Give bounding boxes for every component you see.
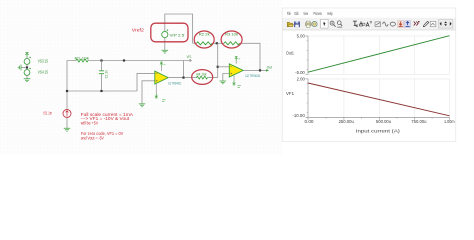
svg-text:750.00u: 750.00u <box>411 119 426 124</box>
toolbar icon: print <box>305 21 311 27</box>
wire: feedback row <box>193 43 260 70</box>
toolbar icon: text box <box>430 21 436 26</box>
voltage source VS3 <box>24 57 31 67</box>
wire: bottom rail <box>67 90 137 92</box>
y labels panel 1 <box>295 34 305 75</box>
wire: U1 output row <box>168 77 192 79</box>
svg-text:VS4 15: VS4 15 <box>38 70 49 75</box>
svg-text:R1 10k: R1 10k <box>75 55 90 60</box>
plot window frame <box>282 8 456 141</box>
node: cap top <box>100 59 102 61</box>
schematic background <box>0 0 474 155</box>
U1 V+ power pin <box>160 62 165 71</box>
annotation ellipse around R4 <box>192 70 213 85</box>
node: U2 inverting tap <box>217 66 219 68</box>
svg-text:Help: Help <box>327 11 333 16</box>
annotation ellipse around R3 <box>221 31 242 48</box>
y axis panel 2 <box>306 79 309 118</box>
toolbar icon: pen <box>423 21 428 26</box>
trace VF1 dark red <box>308 83 450 116</box>
svg-text:Out: Out <box>267 64 273 69</box>
toolbar icon: zoom <box>330 21 335 27</box>
toolbar icon: cursor pressed <box>321 19 328 28</box>
wire: Vref to ground <box>164 38 166 50</box>
svg-text:VS3 15: VS3 15 <box>38 59 49 64</box>
toolbar nav cluster <box>438 20 453 28</box>
svg-text:VF1: VF1 <box>286 91 295 96</box>
annotation text block <box>81 112 134 141</box>
svg-text:VrP 2.5: VrP 2.5 <box>170 32 185 37</box>
wire: U2 non-inverting to ground <box>223 74 230 81</box>
svg-text:R3 10k: R3 10k <box>225 32 238 36</box>
annotation box Vref2 <box>151 23 188 42</box>
wire: left vertical rail to IS1 <box>66 61 68 110</box>
svg-text:500.00u: 500.00u <box>376 119 391 124</box>
toolbar band <box>283 18 456 30</box>
resistor R3 <box>224 42 239 45</box>
svg-text:0.00: 0.00 <box>305 119 315 124</box>
toolbar icon: export red <box>398 21 404 28</box>
gridlines panel 2 <box>308 79 450 118</box>
svg-text:U2 TRS4011: U2 TRS4011 <box>246 74 261 78</box>
toolbar icon: cursor b <box>359 21 365 27</box>
toolbar icon: cursor a <box>353 21 358 27</box>
output pin arrow <box>266 69 269 71</box>
node: cap bottom <box>100 90 102 92</box>
op-amp U2 <box>229 64 243 77</box>
menu bar <box>287 11 333 16</box>
svg-text:R2 2k: R2 2k <box>199 32 210 36</box>
ground below IS1 <box>64 128 71 131</box>
svg-text:Input current (A): Input current (A) <box>356 128 401 133</box>
svg-text:-5.00: -5.00 <box>295 70 305 75</box>
svg-text:5.00: 5.00 <box>297 34 306 39</box>
svg-text:250.00u: 250.00u <box>339 119 354 124</box>
toolbar icon: sine <box>383 22 389 26</box>
y labels panel 2 <box>292 77 305 119</box>
voltage source VS4 <box>24 68 31 79</box>
svg-text:C1 2n: C1 2n <box>103 70 108 78</box>
resistor R2 <box>197 42 212 45</box>
svg-text:1.00m: 1.00m <box>444 119 455 124</box>
x axis <box>308 117 450 119</box>
node: feedback tap on output <box>259 69 261 71</box>
svg-text:Process: Process <box>314 11 322 16</box>
ground at U2 non-inverting input <box>220 81 227 84</box>
svg-text:2.00: 2.00 <box>297 77 306 82</box>
toolbar icon: save floppy <box>294 22 300 28</box>
power arrow above VS3 <box>26 53 29 57</box>
resistor R1 <box>76 59 88 62</box>
toolbar icon: import blue <box>405 21 411 28</box>
voltage pin VF1 <box>184 60 191 62</box>
node: summing junction top <box>216 42 218 44</box>
U1 V- power pin <box>155 83 166 101</box>
toolbar icon: autoscale <box>375 22 381 27</box>
wire: feedback drop to output <box>183 61 185 78</box>
ground at U1 non-inverting input <box>139 104 146 107</box>
svg-text:Out1: Out1 <box>286 51 295 56</box>
svg-text:IS1 1m: IS1 1m <box>44 111 53 116</box>
U2 V- power pin with ground <box>233 75 241 87</box>
node: rail junction <box>123 59 125 61</box>
resistor R4 <box>192 77 218 79</box>
ground below VS4 <box>24 79 31 82</box>
wire: U1 non-inverting input to ground <box>142 81 155 104</box>
capacitor C1 <box>99 61 104 92</box>
toolbar icon: legend <box>366 22 372 27</box>
svg-text:File: File <box>287 11 291 16</box>
U2 V+ power pin <box>235 57 240 64</box>
wire: U2 output <box>243 69 266 71</box>
y axis panel 1 <box>306 36 309 74</box>
node: output junction <box>182 77 184 79</box>
wire: Vref loop to R2 <box>165 14 193 43</box>
toolbar icon: markers <box>414 21 420 26</box>
wire: bottom rail to U1 inverting input <box>137 73 155 91</box>
wire: top feedback rail <box>67 60 184 62</box>
trace Out1 green <box>308 36 450 72</box>
toolbar icon: open folder <box>287 22 293 26</box>
gridlines panel 1 <box>308 36 450 74</box>
svg-text:VF1: VF1 <box>187 54 192 59</box>
current source IS1 <box>63 110 71 129</box>
toolbar icon: copy <box>312 22 317 27</box>
ground below VrP <box>162 50 169 53</box>
voltage source VrP <box>162 29 169 37</box>
op-amp U1 <box>155 71 168 84</box>
wire: summing node vertical <box>217 43 219 77</box>
node: left rail / bottom rail <box>66 90 68 92</box>
toolbar icon: zoom mode <box>337 21 342 27</box>
svg-text:Vref2: Vref2 <box>132 27 145 32</box>
svg-text:will be +5V: will be +5V <box>81 120 99 125</box>
svg-text:View: View <box>303 11 308 16</box>
svg-text:-10.00: -10.00 <box>292 113 305 118</box>
svg-text:and Vout = -5V: and Vout = -5V <box>81 136 104 141</box>
minor ticks y axes <box>307 41 432 119</box>
svg-text:Edit: Edit <box>295 11 299 16</box>
annotation ellipse around R2 <box>194 31 214 48</box>
svg-text:R4 10k: R4 10k <box>196 72 206 76</box>
toolbar icon: ellipse <box>390 22 395 26</box>
junction between VS3 and VS4 <box>26 66 28 68</box>
ground left of supply midpoint <box>21 67 26 69</box>
svg-text:U1 TRS4011: U1 TRS4011 <box>168 81 182 85</box>
wire: U2 inverting input <box>218 66 230 68</box>
